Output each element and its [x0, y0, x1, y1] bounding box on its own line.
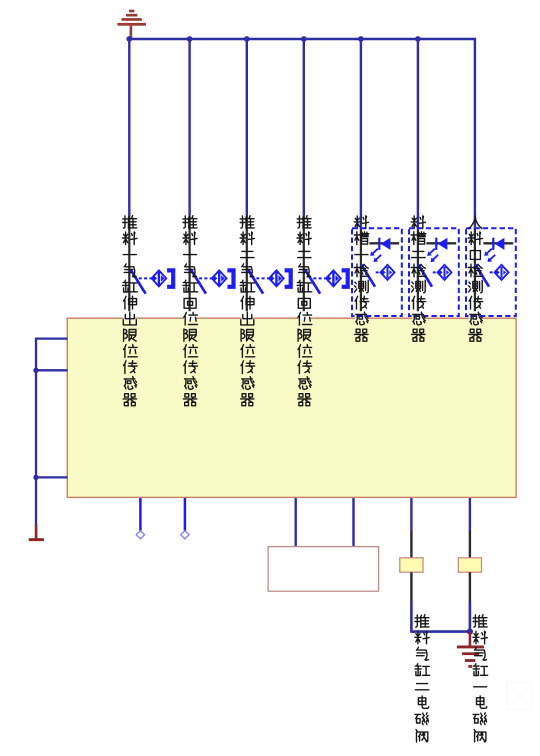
component lead (S2 branch)	[189, 215, 191, 319]
photoelectric sensor B1 (dashed enclosure)	[352, 228, 402, 316]
output pin stub P2 with open terminal	[181, 498, 189, 539]
label background patch (branch 5)	[355, 311, 366, 320]
PLC controller block U1	[67, 318, 516, 497]
wire: left feedback loop	[36, 339, 68, 526]
label background patch (branch 2)	[184, 311, 195, 320]
label: push cyl 2 extend limit sensor	[240, 216, 255, 406]
label background patch (branch 3)	[241, 311, 252, 320]
wire: top power bus	[128, 38, 476, 40]
label: chute 2 detect sensor	[411, 216, 426, 341]
wire: vertical net to B3 branch	[474, 38, 476, 229]
component lead (B1 branch)	[360, 229, 362, 319]
junction node on bus at branch 1	[126, 36, 132, 42]
photoelectric sensor B2 (dashed enclosure)	[409, 228, 459, 316]
label: valve 2 label	[415, 615, 430, 742]
wire: output net to valve Y1 upper	[469, 498, 471, 531]
wire: vertical net to S4 branch	[303, 38, 305, 215]
label: inlet detect sensor	[468, 216, 483, 341]
solenoid valve coil Y1	[400, 558, 423, 572]
solenoid valve coil Y2	[458, 558, 481, 572]
photoelectric sensor B3 (dashed enclosure)	[466, 228, 516, 316]
label background patch (branch 7)	[469, 311, 480, 320]
component lead (B2 branch)	[417, 229, 419, 319]
valve coil lead upper Y2	[469, 531, 471, 558]
limit switch sensor S4 (magnetic reed switch symbol)	[305, 268, 350, 293]
faint watermark (decor suppressed)	[507, 682, 532, 710]
wire: valve 2 return to ground node	[411, 602, 470, 632]
ground symbol GND3 (bottom right, earth)	[457, 632, 484, 668]
wire: vertical net to B2 branch	[417, 38, 419, 229]
wire: valve 1 return to ground node	[469, 602, 472, 633]
wire: vertical net to B1 branch	[360, 38, 362, 229]
wire: output to display module (left)	[295, 498, 297, 547]
label background patch (branch 6)	[412, 311, 423, 320]
wire: vertical net to S1 branch	[128, 38, 130, 215]
junction node on bus at branch 6	[415, 36, 421, 42]
component lead (B3 branch)	[474, 229, 476, 319]
label: valve 1 label	[473, 615, 488, 742]
junction node on bus at branch 2	[187, 36, 193, 42]
label: chute 1 detect sensor	[354, 216, 369, 341]
wire: vertical net to S3 branch	[246, 38, 248, 215]
component lead (S1 branch)	[128, 215, 130, 319]
wire: output net to valve Y2 upper	[410, 498, 412, 531]
limit switch sensor S3 (magnetic reed switch symbol)	[248, 268, 293, 293]
limit switch sensor S2 (magnetic reed switch symbol)	[191, 268, 236, 293]
label: push cyl 1 return limit sensor	[183, 216, 198, 406]
junction node at ground tie	[467, 629, 473, 635]
ground symbol GND2 (bottom left)	[29, 525, 44, 542]
junction node left loop mid	[33, 368, 38, 373]
output pin stub P1 with open terminal	[136, 498, 144, 539]
junction node on bus at branch 4	[301, 36, 307, 42]
component lead (S3 branch)	[246, 215, 248, 319]
junction node left loop bottom	[33, 475, 38, 480]
limit switch sensor S1 (magnetic reed switch symbol)	[130, 268, 175, 293]
wire: vertical net to S2 branch	[188, 38, 190, 215]
label background patch (branch 1)	[124, 311, 135, 320]
label background patch (branch 4)	[298, 311, 309, 320]
valve coil lead lower Y1	[410, 572, 412, 602]
junction node on bus at branch 3	[244, 36, 250, 42]
valve coil lead lower Y2	[469, 572, 471, 602]
label: push cyl 2 return limit sensor	[297, 216, 312, 406]
wire: output to display module (right)	[352, 498, 354, 547]
component lead (S4 branch)	[303, 215, 305, 319]
label: push cyl 1 extend limit sensor	[123, 216, 138, 406]
valve coil lead upper Y1	[410, 531, 412, 558]
display module block (empty rectangle)	[268, 547, 379, 592]
junction node on bus at branch 5	[358, 36, 364, 42]
ground symbol GND1 (top, chassis earth)	[117, 10, 146, 39]
